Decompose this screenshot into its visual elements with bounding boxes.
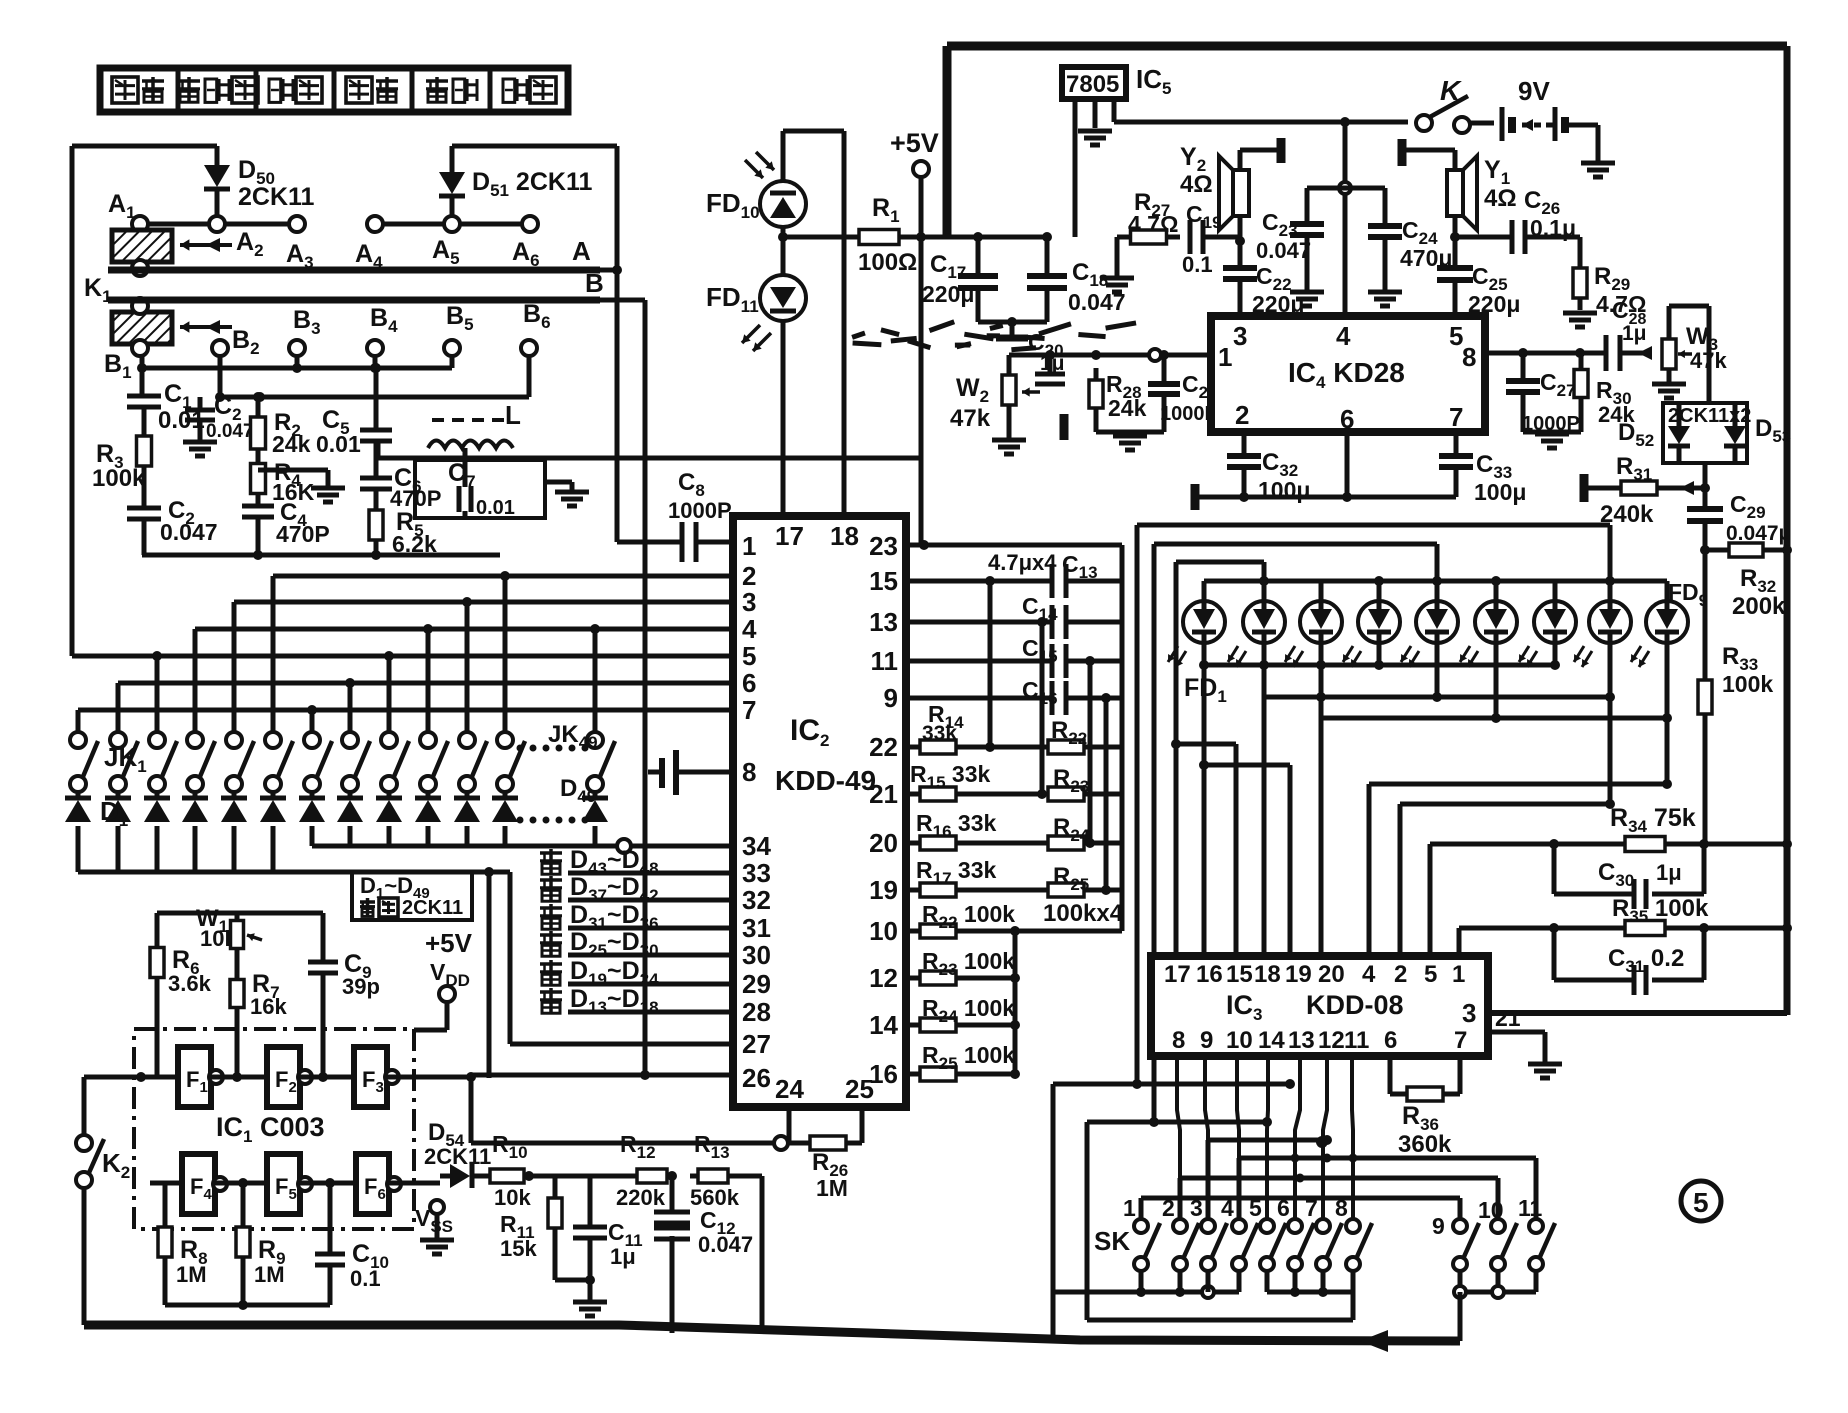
svg-text:14: 14 <box>869 1010 898 1040</box>
svg-text:11: 11 <box>1518 1195 1543 1221</box>
svg-text:7: 7 <box>1454 1027 1467 1054</box>
svg-text:C31 0.2: C31 0.2 <box>1608 945 1684 976</box>
svg-text:27: 27 <box>742 1029 771 1059</box>
svg-text:JK1: JK1 <box>104 742 147 776</box>
svg-text:28: 28 <box>742 997 771 1027</box>
svg-text:9: 9 <box>1432 1213 1445 1239</box>
svg-text:10: 10 <box>1226 1027 1253 1054</box>
svg-text:1μ: 1μ <box>1622 322 1647 345</box>
svg-text:7805: 7805 <box>1066 71 1119 98</box>
svg-text:1: 1 <box>1123 1195 1136 1221</box>
svg-text:FD10: FD10 <box>706 188 760 222</box>
svg-text:IC4 KD28: IC4 KD28 <box>1288 357 1405 392</box>
svg-text:3: 3 <box>1462 998 1476 1028</box>
svg-text:13: 13 <box>1288 1027 1315 1054</box>
svg-text:9V: 9V <box>1518 76 1550 106</box>
svg-text:3: 3 <box>742 587 756 617</box>
svg-text:C8: C8 <box>678 469 705 500</box>
svg-text:R31: R31 <box>1616 453 1652 484</box>
svg-text:17: 17 <box>1164 961 1191 988</box>
svg-text:15k: 15k <box>500 1236 537 1261</box>
svg-text:D52: D52 <box>1618 419 1654 450</box>
svg-text:3: 3 <box>1233 321 1247 351</box>
svg-text:+5V: +5V <box>425 928 473 958</box>
svg-text:C27: C27 <box>1540 369 1576 400</box>
svg-text:C26: C26 <box>1524 187 1560 218</box>
svg-text:D51 2CK11: D51 2CK11 <box>472 168 592 200</box>
svg-text:24k: 24k <box>272 431 311 457</box>
svg-text:B3: B3 <box>293 306 321 338</box>
svg-text:C30: C30 <box>1598 859 1634 890</box>
svg-text:12: 12 <box>1318 1027 1345 1054</box>
svg-text:360k: 360k <box>1398 1131 1452 1158</box>
svg-text:5: 5 <box>1424 961 1437 988</box>
svg-text:0.047: 0.047 <box>698 1232 753 1257</box>
svg-text:4Ω: 4Ω <box>1180 171 1213 198</box>
svg-text:6: 6 <box>1340 404 1354 434</box>
svg-text:33: 33 <box>742 858 771 888</box>
svg-text:200k: 200k <box>1732 593 1786 620</box>
svg-text:100k: 100k <box>1722 671 1773 697</box>
svg-text:SK: SK <box>1094 1226 1130 1256</box>
svg-text:R22: R22 <box>1051 717 1087 748</box>
svg-text:18: 18 <box>1254 961 1281 988</box>
svg-text:R23: R23 <box>1053 765 1089 796</box>
svg-text:2CK11: 2CK11 <box>238 183 315 211</box>
svg-text:100Ω: 100Ω <box>858 249 917 276</box>
svg-text:0.047: 0.047 <box>206 421 254 442</box>
svg-text:23: 23 <box>869 531 898 561</box>
svg-text:B1: B1 <box>104 350 132 382</box>
svg-text:6: 6 <box>742 668 756 698</box>
svg-text:R36: R36 <box>1402 1102 1439 1134</box>
svg-text:17: 17 <box>775 521 804 551</box>
svg-text:22: 22 <box>869 732 898 762</box>
svg-text:1: 1 <box>742 531 756 561</box>
svg-text:C29: C29 <box>1730 491 1766 522</box>
svg-text:K1: K1 <box>84 274 112 306</box>
svg-text:3.6k: 3.6k <box>168 971 212 996</box>
svg-text:1: 1 <box>1452 961 1465 988</box>
svg-text:C33: C33 <box>1476 451 1512 482</box>
svg-text:15: 15 <box>1226 961 1253 988</box>
svg-text:14: 14 <box>1258 1027 1285 1054</box>
svg-text:1M: 1M <box>176 1262 207 1287</box>
svg-text:470P: 470P <box>276 521 330 547</box>
svg-text:18: 18 <box>830 521 859 551</box>
svg-text:C25: C25 <box>1472 263 1508 294</box>
svg-text:6: 6 <box>1384 1027 1397 1054</box>
svg-text:KDD-08: KDD-08 <box>1306 990 1404 1020</box>
svg-text:16: 16 <box>1196 961 1223 988</box>
svg-text:0.047: 0.047 <box>1256 238 1311 263</box>
svg-text:24: 24 <box>775 1074 804 1104</box>
svg-text:R1: R1 <box>872 194 900 226</box>
svg-text:R35 100k: R35 100k <box>1612 895 1709 926</box>
svg-text:11: 11 <box>871 646 899 676</box>
svg-text:0.01: 0.01 <box>476 497 515 519</box>
svg-text:8: 8 <box>1462 342 1476 372</box>
svg-text:11: 11 <box>1344 1027 1369 1054</box>
svg-text:8: 8 <box>1172 1027 1185 1054</box>
svg-text:10k: 10k <box>494 1185 531 1210</box>
svg-text:4.7μx4: 4.7μx4 <box>988 550 1057 575</box>
svg-text:R10: R10 <box>492 1131 528 1162</box>
svg-text:2CK11: 2CK11 <box>424 1144 491 1169</box>
svg-text:B6: B6 <box>523 300 551 332</box>
svg-text:220μ: 220μ <box>922 281 974 307</box>
svg-text:9: 9 <box>1200 1027 1213 1054</box>
svg-text:A: A <box>572 236 591 266</box>
svg-text:5: 5 <box>742 641 756 671</box>
svg-text:16: 16 <box>869 1059 898 1089</box>
svg-text:7: 7 <box>742 695 756 725</box>
svg-text:15: 15 <box>869 566 898 596</box>
svg-text:100kx4: 100kx4 <box>1043 900 1124 927</box>
svg-text:D1: D1 <box>100 796 128 830</box>
svg-text:C22: C22 <box>1256 263 1292 294</box>
svg-text:39p: 39p <box>342 974 380 999</box>
svg-text:2: 2 <box>1394 961 1407 988</box>
svg-text:1μ: 1μ <box>1656 860 1682 885</box>
svg-text:A1: A1 <box>108 190 136 222</box>
svg-text:0.047: 0.047 <box>160 519 218 545</box>
svg-text:4: 4 <box>1336 321 1351 351</box>
svg-text:21: 21 <box>1495 1005 1521 1031</box>
svg-text:A6: A6 <box>512 238 540 270</box>
svg-text:16k: 16k <box>250 994 287 1019</box>
svg-text:1μ: 1μ <box>610 1244 636 1269</box>
svg-text:32: 32 <box>742 885 771 915</box>
svg-text:8: 8 <box>742 757 756 787</box>
svg-text:7: 7 <box>1449 402 1463 432</box>
svg-text:0.01: 0.01 <box>316 431 361 457</box>
svg-text:W2: W2 <box>956 374 989 406</box>
svg-text:10: 10 <box>869 916 898 946</box>
svg-text:C18: C18 <box>1072 259 1108 290</box>
svg-text:5: 5 <box>1693 1187 1709 1218</box>
svg-text:4Ω: 4Ω <box>1484 185 1517 212</box>
svg-text:19: 19 <box>1285 961 1312 988</box>
svg-text:20: 20 <box>1318 961 1345 988</box>
svg-text:4: 4 <box>1362 961 1376 988</box>
svg-text:C23: C23 <box>1262 209 1298 240</box>
svg-text:100k: 100k <box>92 465 146 492</box>
svg-text:34: 34 <box>742 831 771 861</box>
svg-text:30: 30 <box>742 940 771 970</box>
svg-text:KDD-49: KDD-49 <box>775 765 876 796</box>
svg-text:220k: 220k <box>616 1185 666 1210</box>
svg-text:31: 31 <box>742 913 771 943</box>
svg-text:K2: K2 <box>102 1148 130 1182</box>
svg-text:R29: R29 <box>1594 263 1630 294</box>
svg-text:0.1: 0.1 <box>1182 252 1213 277</box>
svg-text:IC5: IC5 <box>1136 64 1171 98</box>
svg-text:B2: B2 <box>232 326 260 358</box>
svg-text:1M: 1M <box>816 1175 848 1201</box>
svg-text:FD11: FD11 <box>706 282 759 316</box>
svg-text:C24: C24 <box>1402 217 1438 248</box>
svg-text:1M: 1M <box>254 1262 285 1287</box>
svg-text:A5: A5 <box>432 236 460 268</box>
svg-text:1: 1 <box>1218 342 1232 372</box>
svg-text:13: 13 <box>869 607 898 637</box>
svg-text:A2: A2 <box>236 228 264 260</box>
svg-text:C17: C17 <box>930 251 966 282</box>
svg-text:2CK11: 2CK11 <box>402 897 463 919</box>
svg-text:R32: R32 <box>1740 565 1776 596</box>
svg-text:4: 4 <box>742 614 757 644</box>
svg-text:L: L <box>505 400 521 430</box>
svg-text:1000P: 1000P <box>668 498 732 523</box>
svg-text:24k: 24k <box>1108 395 1147 421</box>
svg-text:2: 2 <box>1235 400 1249 430</box>
svg-text:100μ: 100μ <box>1474 479 1526 505</box>
svg-text:K: K <box>1440 75 1462 106</box>
svg-text:33k: 33k <box>922 722 957 745</box>
svg-text:IC1 C003: IC1 C003 <box>216 1112 325 1146</box>
svg-text:12: 12 <box>869 963 898 993</box>
svg-text:21: 21 <box>869 779 898 809</box>
svg-text:26: 26 <box>742 1063 771 1093</box>
svg-text:B5: B5 <box>446 302 474 334</box>
svg-text:C32: C32 <box>1262 449 1298 480</box>
svg-text:Y1: Y1 <box>1484 156 1510 188</box>
svg-text:R25: R25 <box>1053 863 1089 894</box>
svg-text:+5V: +5V <box>890 128 939 158</box>
svg-text:B4: B4 <box>370 304 398 336</box>
svg-text:R12: R12 <box>620 1131 656 1162</box>
svg-text:R13: R13 <box>694 1131 730 1162</box>
svg-text:9: 9 <box>884 683 898 713</box>
svg-text:47k: 47k <box>950 405 991 432</box>
svg-text:R34 75k: R34 75k <box>1610 804 1696 836</box>
svg-text:R24: R24 <box>1053 814 1090 845</box>
svg-text:R33: R33 <box>1722 643 1758 674</box>
svg-text:0.1: 0.1 <box>350 1266 381 1291</box>
svg-text:19: 19 <box>869 875 898 905</box>
svg-text:20: 20 <box>869 828 898 858</box>
svg-text:29: 29 <box>742 969 771 999</box>
